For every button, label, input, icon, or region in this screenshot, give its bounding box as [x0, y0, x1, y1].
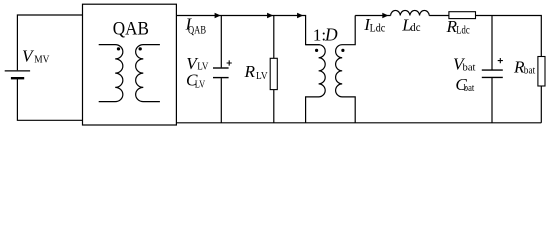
svg-text:QAB: QAB: [188, 24, 206, 36]
svg-text:D: D: [324, 24, 338, 44]
svg-text:dc: dc: [410, 22, 420, 34]
dot QAB left winding: [117, 47, 120, 50]
wire rail 1:D to L_dc: [355, 15, 390, 17]
resistor R_LV box: [270, 58, 277, 89]
svg-text:bat: bat: [524, 65, 535, 77]
arrow rail third: [297, 13, 303, 19]
wire L_dc to R_Ldc: [429, 15, 449, 17]
svg-text:R: R: [244, 62, 256, 81]
wire top-left loop: [17, 15, 82, 70]
svg-text:QAB: QAB: [113, 19, 149, 40]
resistor R_bat box: [538, 57, 545, 87]
svg-text:Ldc: Ldc: [456, 25, 469, 37]
wire R_bat bottom to corner: [540, 86, 542, 123]
svg-text:Ldc: Ldc: [370, 22, 386, 34]
arrow rail second: [267, 13, 273, 19]
wire C_bat branch bottom: [491, 78, 493, 123]
wire bottom rail: [176, 122, 541, 124]
wire C_LV branch bottom: [220, 78, 222, 123]
transformer 1:D left winding: [306, 45, 326, 123]
wire bottom-left loop: [17, 79, 82, 120]
wire R_LV branch top: [273, 16, 275, 59]
capacitor C_bat top plate: [482, 69, 503, 71]
QAB transformer right winding: [136, 45, 160, 102]
svg-text:LV: LV: [197, 61, 208, 73]
dot 1:D right winding: [341, 49, 344, 52]
plus sign C_bat: [498, 58, 503, 63]
plus sign C_LV: [227, 60, 232, 65]
capacitor C_LV bottom plate: [213, 77, 229, 79]
dot 1:D left winding: [315, 49, 318, 52]
battery V_MV long plate: [5, 70, 30, 72]
battery V_MV short plate: [11, 77, 24, 79]
resistor R_Ldc box: [449, 12, 476, 19]
capacitor C_LV top plate: [213, 67, 229, 69]
wire top rail QAB to 1:D: [176, 16, 319, 45]
QAB transformer left winding: [99, 45, 123, 102]
svg-text:bat: bat: [463, 61, 476, 73]
QAB block box: [83, 4, 177, 125]
svg-text:bat: bat: [464, 82, 475, 94]
svg-text:LV: LV: [256, 70, 268, 82]
wire R_Ldc to corner: [476, 16, 542, 57]
arrow I_QAB on rail: [215, 13, 221, 19]
arrow I_Ldc on rail: [382, 13, 388, 19]
wire C_LV branch top: [220, 16, 222, 68]
dot QAB right winding: [139, 47, 142, 50]
transformer 1:D right winding: [336, 16, 356, 123]
wire C_bat branch top: [491, 16, 493, 70]
wire R_LV branch bottom: [273, 90, 275, 123]
svg-text:MV: MV: [34, 54, 49, 66]
svg-text:LV: LV: [195, 78, 205, 90]
inductor L_dc coil: [391, 10, 430, 15]
capacitor C_bat bottom plate: [482, 76, 503, 78]
